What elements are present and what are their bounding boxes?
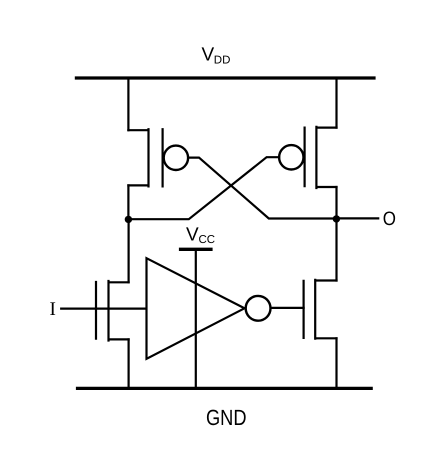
VCC supply bar <box>181 248 211 251</box>
wire M4 source to GND <box>335 338 337 388</box>
wire node B to M4 drain <box>335 219 337 281</box>
wire M1 drain to node A <box>127 185 129 219</box>
wire U1 output to M4 gate <box>271 307 304 309</box>
svg-text:I: I <box>50 299 56 320</box>
wire input I to M3 gate and inverter input <box>61 308 146 310</box>
node B junction <box>333 215 340 222</box>
label VDD <box>202 45 231 67</box>
transistor M4 <box>304 280 337 339</box>
svg-text:V: V <box>186 224 199 245</box>
op-amp U1 triangle <box>147 258 245 359</box>
transistor M3 <box>96 281 129 341</box>
svg-text:CC: CC <box>199 234 216 246</box>
wire M2 drain to node B <box>335 187 337 219</box>
wire node A to M3 drain <box>128 219 130 282</box>
wire node B to M1 gate (cross-couple) <box>188 158 336 219</box>
svg-text:O: O <box>383 208 396 230</box>
wire VDD to M2 source <box>335 78 337 128</box>
bubble M1 gate <box>164 146 188 170</box>
node A junction <box>125 216 132 223</box>
bubble U1 output <box>246 296 271 321</box>
svg-text:GND: GND <box>206 405 247 430</box>
wire node A to M2 gate (cross-couple) <box>128 157 279 219</box>
VDD rail <box>76 76 374 79</box>
transistor M1 <box>128 129 162 186</box>
label VCC <box>186 224 215 246</box>
wire node B to output O <box>336 217 378 219</box>
GND rail <box>78 387 372 390</box>
transistor M2 <box>305 127 337 188</box>
wire VCC through U1 to GND <box>195 249 197 388</box>
svg-text:V: V <box>202 45 215 66</box>
wire M3 source to GND <box>128 339 130 388</box>
bubble M2 gate <box>279 145 303 169</box>
svg-text:DD: DD <box>214 54 231 66</box>
wire VDD to M1 source <box>127 78 129 130</box>
